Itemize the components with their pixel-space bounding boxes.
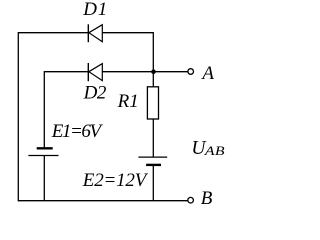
svg-text:B: B: [201, 188, 213, 209]
terminal B circle: [188, 197, 194, 203]
battery E1: [28, 148, 58, 155]
terminal A circle: [188, 69, 194, 75]
junction node dot: [151, 69, 156, 74]
diode D2: [88, 63, 102, 81]
svg-text:A: A: [200, 63, 214, 84]
resistor R1: [147, 87, 158, 119]
wire inner vertical lower (E1 to bottom): [43, 156, 45, 201]
wire top left segment: [18, 32, 88, 34]
svg-text:D2: D2: [83, 82, 107, 103]
wire D2 left segment: [44, 71, 88, 73]
wire D2 right segment to terminal A: [102, 71, 188, 73]
svg-text:R1: R1: [117, 91, 139, 112]
svg-text:D1: D1: [82, 0, 108, 20]
svg-text:E1=6V: E1=6V: [51, 121, 104, 142]
wire R1 bottom to E2: [152, 119, 154, 157]
battery E2: [138, 157, 167, 165]
svg-text:E2=12V: E2=12V: [82, 170, 149, 191]
wire E2 to bottom: [152, 165, 154, 201]
wire inner vertical upper (D2 corner to E1): [43, 71, 45, 147]
wire right vertical from D1 to R1: [152, 32, 154, 87]
label UAB: [191, 138, 224, 159]
wire bottom horizontal: [18, 200, 188, 202]
wire top right segment: [102, 32, 153, 34]
diode D1: [88, 24, 102, 42]
svg-text:AB: AB: [204, 144, 225, 158]
wire left vertical: [17, 32, 19, 201]
